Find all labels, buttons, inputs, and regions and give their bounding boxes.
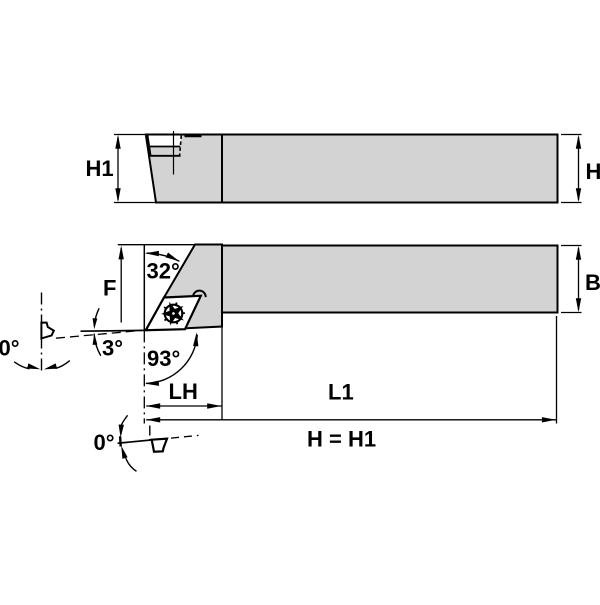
svg-text:L1: L1 bbox=[328, 380, 354, 405]
svg-text:LH: LH bbox=[169, 379, 198, 404]
svg-text:0°: 0° bbox=[0, 336, 20, 361]
svg-text:93°: 93° bbox=[147, 346, 180, 371]
svg-text:3°: 3° bbox=[102, 336, 123, 361]
svg-text:32°: 32° bbox=[147, 259, 180, 284]
svg-text:F: F bbox=[103, 276, 116, 301]
svg-text:H: H bbox=[586, 159, 600, 184]
svg-text:B: B bbox=[585, 270, 600, 295]
svg-text:H1: H1 bbox=[86, 156, 114, 181]
svg-text:H = H1: H = H1 bbox=[307, 427, 376, 452]
svg-text:0°: 0° bbox=[94, 430, 115, 455]
